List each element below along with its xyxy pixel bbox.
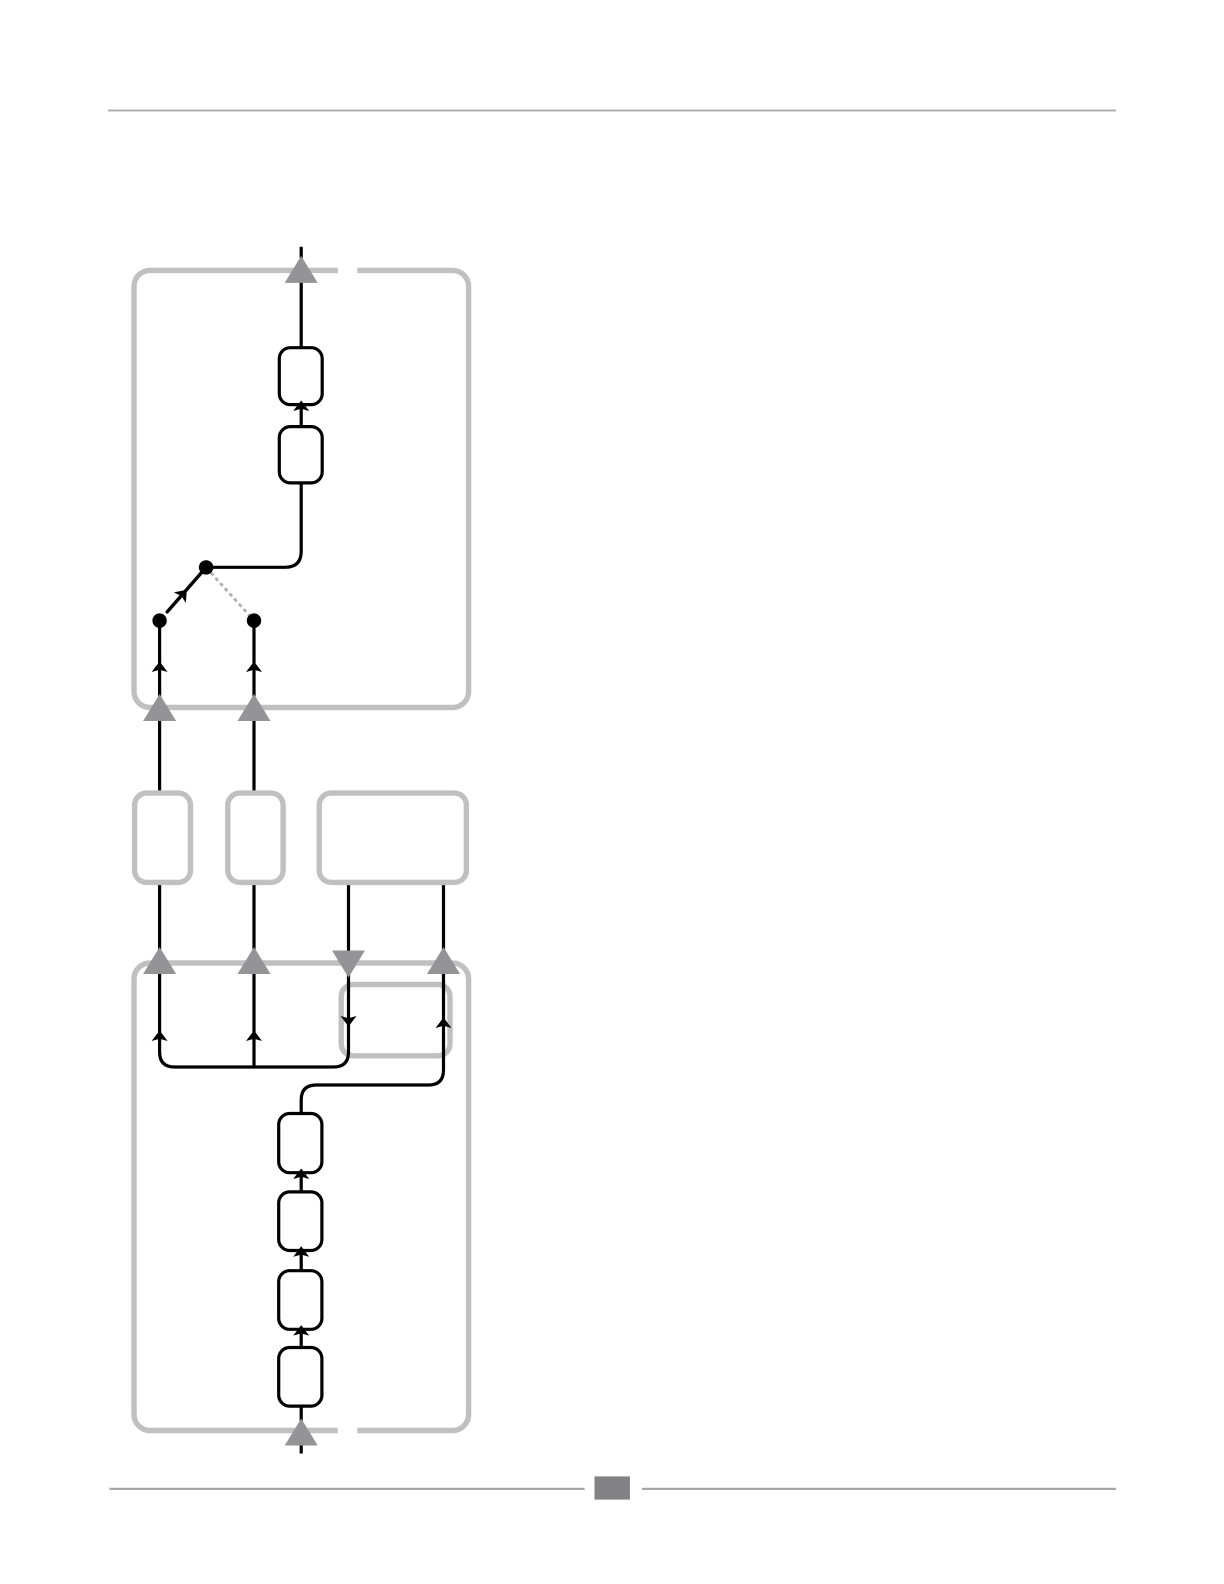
footer rule right (642, 1488, 1116, 1490)
block chain2 (279, 1192, 322, 1251)
arrowhead left channel in voice box (152, 1031, 168, 1042)
arrowhead channel B in voice box (246, 1031, 262, 1042)
arrowhead left channel below dot (152, 662, 168, 673)
wire: right channel upper (252, 621, 255, 791)
arrowhead into rect1 (293, 401, 309, 412)
wire: rect2 down to switch common (206, 483, 301, 567)
arrowhead down into box D (341, 1016, 357, 1027)
node: switch common dot (199, 560, 213, 574)
wire: chain link 2-3 (300, 1251, 303, 1271)
block chain3 (279, 1271, 322, 1330)
gray block A (135, 793, 191, 882)
wire: top output stub (300, 247, 303, 348)
block rect1 (top chain upper) (279, 348, 322, 405)
wire: switch dashed pole (206, 567, 254, 620)
footer rule left (110, 1488, 585, 1490)
wire: collector path left channel / box D return (160, 885, 349, 1067)
arrowhead into chain3 (293, 1325, 309, 1336)
arrowhead on switch pole (174, 585, 193, 603)
block chain4 (279, 1348, 322, 1407)
block rect2 (top chain lower) (279, 427, 322, 483)
gray block D (send/return) (341, 985, 450, 1056)
gray block B (228, 793, 283, 882)
wire: chain link 3-4 (300, 1329, 303, 1347)
big triangle: down from C (332, 951, 365, 978)
big triangle: right into output section (238, 694, 271, 721)
wire: bottom input stub (300, 1406, 303, 1453)
footer page box (595, 1476, 630, 1499)
big triangle: bottom input (285, 1419, 318, 1446)
node: switch right dot (247, 613, 261, 627)
wire: chain output to box D send (301, 885, 443, 1113)
arrowhead up through box D (436, 1018, 452, 1029)
big triangle: master out (285, 256, 318, 283)
container box: top (output section) (134, 270, 469, 707)
container box: bottom (voice section) (134, 963, 469, 1431)
wire: between rect1 and rect2 (300, 405, 303, 427)
header rule (108, 110, 1116, 112)
block chain1 (279, 1114, 322, 1173)
node: switch left dot (152, 613, 166, 627)
wire: switch solid pole (167, 567, 206, 612)
arrowhead right channel below dot (246, 662, 262, 673)
big triangle: B into voice top border (238, 947, 271, 974)
big triangle: A into voice top border (143, 947, 176, 974)
wire: left channel upper (158, 621, 161, 791)
arrowhead into chain2 (293, 1246, 309, 1257)
wire: channel B lower (252, 885, 255, 1067)
big triangle: left into output section (143, 694, 176, 721)
big triangle: up into C (427, 947, 460, 974)
arrowhead into chain1 (293, 1169, 309, 1180)
gray block C (319, 793, 466, 882)
wire: chain link 1-2 (300, 1173, 303, 1192)
